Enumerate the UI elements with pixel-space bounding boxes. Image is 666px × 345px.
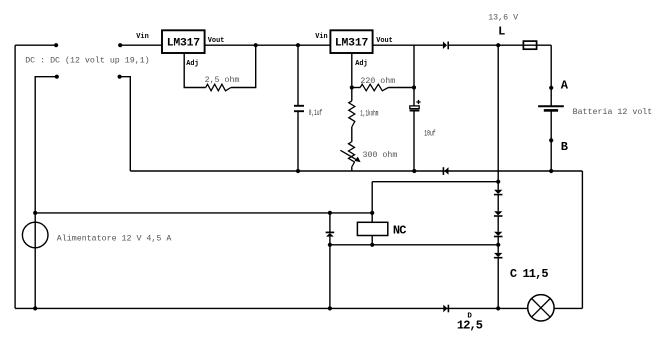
svg-text:300 ohm: 300 ohm (363, 150, 398, 160)
label C1 value (309, 109, 322, 119)
label node A (561, 79, 569, 93)
wire right edge vertical (581, 171, 583, 308)
wire C1 lower (297, 111, 299, 171)
label C2 value (424, 129, 435, 139)
wire chain to bottom rail (497, 258, 499, 309)
wire U1 Adj down (184, 53, 206, 88)
wire chain 2 (497, 216, 499, 232)
node chain bottom (496, 306, 500, 310)
diode D6 (494, 253, 503, 258)
svg-text:13,6 V: 13,6 V (488, 14, 518, 23)
svg-text:B: B (561, 140, 568, 154)
label P1 value (363, 150, 398, 160)
relay K1 coil box (357, 222, 387, 235)
svg-text:1,1kohm: 1,1kohm (360, 109, 378, 119)
label R1 value (205, 75, 240, 85)
wire U2 Vout (373, 44, 443, 46)
resistor R1 2,5 ohm (206, 84, 231, 91)
diode D5 (494, 232, 503, 237)
pin label Vout U2 (376, 37, 393, 45)
node U1 Vout junction (254, 43, 258, 47)
pin label Adj U2 (355, 60, 367, 68)
wire top-left to terminal (15, 44, 56, 46)
wire battery top vertical (550, 45, 552, 106)
op-amp U2 LM317 box (330, 30, 372, 53)
wire T2 to U1 Vin (120, 44, 162, 46)
wire relay-top horizontal (372, 181, 498, 183)
potentiometer P1 300 ohm (340, 142, 360, 168)
svg-text:220 ohm: 220 ohm (360, 76, 395, 86)
svg-text:LM317: LM317 (335, 37, 369, 49)
svg-text:L: L (498, 24, 505, 38)
wire zener lower (329, 237, 331, 309)
node terminal T3 (55, 75, 59, 79)
diode Z1 zener (326, 232, 335, 236)
node zener bottom junction (328, 243, 332, 247)
capacitor C2 10uf (410, 100, 421, 111)
wire relay vertical lower (371, 236, 373, 245)
label DC : DC (25, 56, 149, 66)
wire chain 1 (497, 195, 499, 212)
wire mid rail (130, 170, 582, 172)
wire Adj to R3 (351, 88, 353, 101)
node battery rail junction (549, 169, 553, 173)
label 13,6 V (488, 14, 518, 23)
svg-text:LM317: LM317 (167, 37, 201, 49)
wire battery to rail (550, 110, 552, 171)
svg-text:C 11,5: C 11,5 (510, 267, 549, 281)
power source PS1 circle (22, 222, 48, 248)
node zener top junction (328, 211, 332, 215)
node zener rail junction (328, 306, 332, 310)
op-amp U1 LM317 box (162, 30, 205, 53)
label NC (393, 224, 406, 238)
svg-text:Batteria 12 volt: Batteria 12 volt (573, 107, 653, 117)
node terminal T2 (118, 43, 122, 47)
resistor R2 220 ohm (360, 84, 388, 91)
wire C2 lower (413, 111, 415, 172)
node chain mid junction (496, 243, 500, 247)
node L junction (496, 43, 500, 47)
node C1 bottom (296, 169, 300, 173)
svg-text:10uf: 10uf (424, 129, 435, 139)
node chain top junction (496, 180, 500, 184)
wire P1 to rail (351, 168, 353, 172)
svg-text:2,5 ohm: 2,5 ohm (205, 75, 240, 85)
wire bottom rail left of lamp (15, 307, 528, 309)
wire bottom rail right of lamp (554, 307, 582, 309)
pin label Vin U1 (136, 33, 148, 41)
node R2 right junction (412, 85, 416, 89)
wire zener upper (329, 213, 331, 232)
label 12,5 (457, 319, 483, 333)
resistor R3 1,1kohm (349, 101, 355, 127)
wire T4 to mid rail (120, 77, 131, 171)
pin label Vin U2 (315, 33, 327, 41)
label R3 value (360, 109, 378, 119)
wire U1 Vout (205, 44, 331, 46)
label battery (573, 107, 653, 117)
node relay top junction (370, 211, 374, 215)
fuse F1 (523, 41, 536, 49)
label alimentatore (57, 234, 172, 244)
wire R3 to P1 (351, 127, 353, 142)
svg-text:12,5: 12,5 (457, 319, 483, 333)
wire U2 Adj down (351, 53, 353, 88)
diode D7 (443, 305, 448, 313)
label node L (498, 24, 505, 38)
svg-text:DC : DC (12 volt up 19,1): DC : DC (12 volt up 19,1) (25, 56, 149, 66)
svg-text:Adj: Adj (186, 60, 198, 68)
wire L vertical upper (497, 45, 499, 190)
svg-text:Vin: Vin (136, 33, 148, 41)
wire R1 to Vout (231, 45, 256, 87)
label R2 value (360, 76, 395, 86)
svg-text:Vout: Vout (376, 37, 393, 45)
wire zener row (330, 244, 498, 246)
node alim bottom junction (33, 306, 37, 310)
wire left outer vertical (14, 45, 16, 308)
capacitor C1 0,1uf (294, 106, 304, 111)
diode D1 (443, 41, 448, 49)
svg-text:0,1uf: 0,1uf (309, 109, 322, 119)
node relay bottom junction (370, 243, 374, 247)
svg-text:Vin: Vin (315, 33, 327, 41)
svg-text:Vout: Vout (208, 37, 225, 45)
diode D3 (494, 190, 503, 195)
label node B (561, 140, 568, 154)
node terminal T4 (118, 75, 122, 79)
diode D2 (443, 167, 448, 175)
svg-text:Adj: Adj (355, 60, 367, 68)
wire R2 to C2 branch (388, 87, 414, 89)
node A (549, 86, 553, 90)
svg-text:NC: NC (393, 224, 406, 238)
diode D4 (494, 211, 503, 216)
wire alimentatore to relay (35, 212, 372, 214)
wire chain 3 (497, 237, 499, 253)
node U2 Adj junction (350, 85, 354, 89)
wire C1 upper (297, 45, 299, 106)
node C2 bottom (412, 169, 416, 173)
pin label Adj U1 (186, 60, 198, 68)
pin label Vout U1 (208, 37, 225, 45)
node C1 top (296, 43, 300, 47)
wire C2 upper (413, 45, 415, 106)
node B (549, 138, 553, 142)
battery BT1 (538, 106, 564, 110)
svg-text:Alimentatore 12 V 4,5 A: Alimentatore 12 V 4,5 A (57, 234, 172, 244)
label C 11,5 (510, 267, 549, 281)
wire T3 left then down (35, 77, 57, 309)
lamp L1 (528, 295, 554, 321)
wire D1 to fuse (448, 44, 551, 46)
wire relay vertical upper (371, 182, 373, 223)
node alim top junction (33, 211, 37, 215)
wire Adj to R2 (352, 87, 360, 89)
label node D (467, 312, 472, 320)
node terminal T1 (54, 43, 58, 47)
